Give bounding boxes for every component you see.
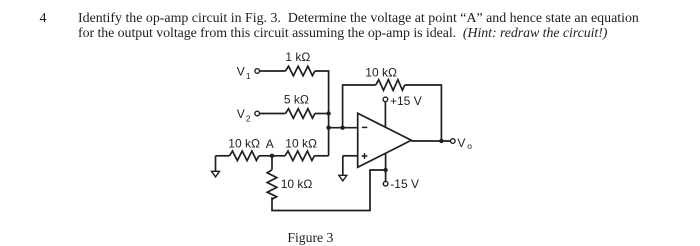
wire output: [411, 140, 450, 142]
svg-text:+15 V: +15 V: [390, 94, 422, 108]
svg-text:-15 V: -15 V: [390, 177, 419, 191]
label Vo: [457, 136, 472, 151]
terminal V1: [255, 69, 260, 74]
label +15 V: [390, 94, 422, 108]
value label 10 kOhm feedback: [365, 65, 397, 79]
svg-text:2: 2: [246, 113, 251, 123]
op-amp U1: [358, 113, 412, 167]
svg-text:1 kΩ: 1 kΩ: [285, 50, 310, 64]
wire bus to inverting input: [329, 127, 358, 129]
caption Figure 3: [287, 231, 333, 245]
svg-text:5 kΩ: 5 kΩ: [284, 93, 309, 107]
terminal +15V: [383, 97, 388, 102]
node A: [270, 154, 274, 158]
junction feedback tap: [340, 126, 344, 130]
resistor Rf 10 kOhm: [376, 80, 405, 91]
svg-text:V: V: [457, 136, 465, 150]
value label 5 kOhm: [284, 93, 309, 107]
wire R5 to bottom rail to -15V junction: [272, 170, 386, 211]
resistor R4 10 kOhm: [285, 151, 314, 161]
resistor R3 10 kOhm: [230, 151, 259, 161]
question text: [78, 11, 639, 41]
wire R1 to bus, bus down to A row: [315, 71, 329, 156]
label V1: [237, 64, 251, 80]
resistor R1 1 kOhm: [286, 66, 315, 76]
question number 4: [40, 11, 47, 26]
svg-text:V: V: [237, 107, 245, 121]
label V2: [237, 107, 251, 123]
svg-text:10 kΩ: 10 kΩ: [365, 65, 397, 79]
svg-text:V: V: [237, 64, 245, 78]
svg-text:1: 1: [246, 71, 251, 81]
wire node A to R4: [272, 155, 285, 157]
wire V1 to R1: [260, 70, 286, 72]
resistor R2 5 kOhm: [286, 109, 315, 119]
terminal V2: [255, 111, 260, 116]
wire node A down to R5: [271, 156, 273, 170]
value label 10 kOhm left: [228, 136, 260, 150]
wire R3 to node A: [259, 155, 272, 157]
wire R2 to bus: [315, 113, 329, 115]
wire op-amp to -15V terminal: [385, 153, 387, 181]
wire +15V supply to op-amp: [384, 102, 386, 127]
svg-text:A: A: [266, 137, 274, 151]
wire noninverting input: [343, 155, 358, 157]
junction bus/inverting wire: [326, 126, 330, 130]
value label 10 kOhm right: [285, 136, 317, 150]
wire feedback riser and top rail: [343, 85, 376, 128]
wire V2 to R2: [260, 113, 286, 115]
terminal -15V: [383, 181, 388, 186]
svg-text:o: o: [467, 141, 472, 151]
minus sign: [362, 126, 367, 128]
junction R2/bus: [326, 111, 330, 115]
value label 1 kOhm: [285, 50, 310, 64]
value label 10 kOhm vertical: [281, 177, 313, 191]
svg-text:10 kΩ: 10 kΩ: [281, 177, 313, 191]
wire top rail to output: [405, 85, 442, 141]
ground noninverting: [339, 156, 347, 181]
wire R4 to bus: [314, 155, 328, 157]
junction -15V / bottom return: [383, 168, 387, 172]
wire ground to R3: [216, 155, 230, 157]
resistor R5 10 kOhm vertical: [267, 170, 277, 199]
svg-text:10 kΩ: 10 kΩ: [285, 136, 317, 150]
label -15 V: [390, 177, 419, 191]
label A: [266, 137, 274, 151]
junction output/feedback: [439, 139, 443, 143]
ground left: [212, 156, 220, 177]
plus sign: [362, 153, 368, 159]
terminal Vo: [451, 139, 456, 144]
svg-text:10 kΩ: 10 kΩ: [228, 136, 260, 150]
